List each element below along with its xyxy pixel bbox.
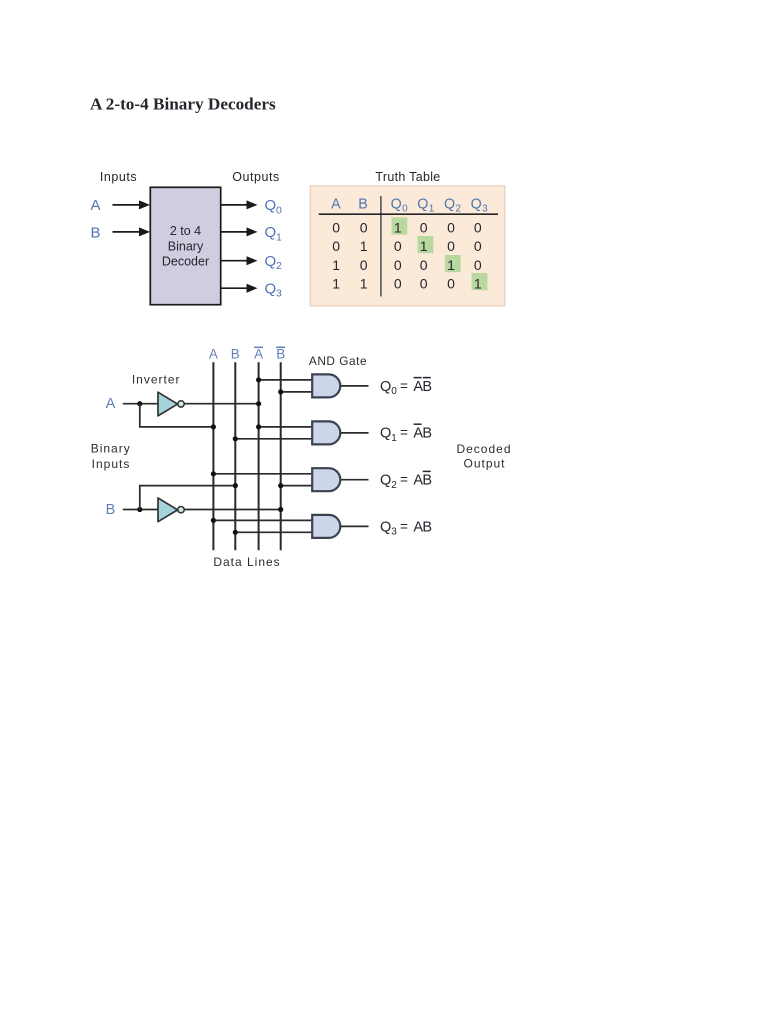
svg-text:=: = <box>400 472 408 487</box>
svg-text:0: 0 <box>360 220 368 236</box>
svg-text:A: A <box>254 347 263 362</box>
wire: data line B vertical <box>234 362 236 550</box>
svg-text:0: 0 <box>474 238 482 254</box>
node junction G4 in1 <box>211 518 216 523</box>
svg-text:=: = <box>400 378 408 393</box>
svg-text:1: 1 <box>360 238 368 254</box>
svg-text:Inverter: Inverter <box>132 373 181 387</box>
svg-text:2: 2 <box>456 204 462 215</box>
decoder block U1: 2 to 4 Binary Decoder <box>150 187 220 304</box>
label Binary Inputs <box>91 441 131 471</box>
table header Q2 <box>444 197 462 215</box>
svg-text:3: 3 <box>482 204 488 215</box>
table divider vertical <box>380 196 382 297</box>
svg-text:A: A <box>90 197 100 214</box>
svg-text:0: 0 <box>276 204 282 216</box>
table row 3: 1 0 0 0 1 0 <box>332 257 482 273</box>
wire: arrow output Q3 <box>221 284 258 293</box>
wire: data line Bbar vertical <box>280 362 282 550</box>
svg-text:0: 0 <box>447 275 455 291</box>
AND gate G4 <box>312 515 340 538</box>
svg-text:0: 0 <box>391 386 397 397</box>
svg-text:Decoder: Decoder <box>162 255 209 269</box>
svg-text:=: = <box>400 425 408 440</box>
svg-text:3: 3 <box>276 288 282 300</box>
svg-text:2: 2 <box>391 480 397 491</box>
label Q3 = AB <box>380 519 432 538</box>
svg-text:2 to 4: 2 to 4 <box>170 224 201 238</box>
table row 1: 0 0 1 0 0 0 <box>332 220 482 236</box>
svg-text:Q: Q <box>265 224 277 241</box>
svg-text:0: 0 <box>420 275 428 291</box>
node junction G1 in1 <box>256 377 261 382</box>
wire: Abar to gate G2 input 1 <box>259 426 313 428</box>
inverter U1 (input A) <box>158 392 184 416</box>
node junction G3 in1 <box>211 471 216 476</box>
svg-text:0: 0 <box>394 238 402 254</box>
svg-text:0: 0 <box>394 275 402 291</box>
svg-text:Data Lines: Data Lines <box>213 555 280 569</box>
svg-text:1: 1 <box>420 238 428 254</box>
wire: B to gate G2 input 2 <box>235 438 312 440</box>
wire: G3 output <box>341 479 369 481</box>
svg-text:Inputs: Inputs <box>100 170 137 184</box>
wire: inverter U2 output to Bbar line <box>184 509 281 511</box>
svg-text:0: 0 <box>474 257 482 273</box>
wire: Bbar to gate G3 input 2 <box>281 485 313 487</box>
svg-text:Binary: Binary <box>168 239 204 253</box>
svg-text:0: 0 <box>360 257 368 273</box>
node junction A line <box>211 424 216 429</box>
svg-text:Inputs: Inputs <box>92 457 131 471</box>
svg-text:Q: Q <box>380 519 391 535</box>
node label Bbar (data line) <box>276 347 285 362</box>
svg-text:B: B <box>106 502 116 518</box>
table row 4: 1 1 0 0 0 1 <box>332 275 482 291</box>
node junction on A input <box>137 401 142 406</box>
svg-text:3: 3 <box>391 527 397 538</box>
truth table panel <box>310 186 505 306</box>
svg-text:0: 0 <box>332 220 340 236</box>
table header Q1 <box>417 197 435 215</box>
svg-text:1: 1 <box>360 275 368 291</box>
table row 2: 0 1 0 1 0 0 <box>332 238 482 254</box>
node junction Abar drive <box>256 401 261 406</box>
wire: B input to inverter U2 <box>123 509 158 511</box>
wire: arrow output Q2 <box>221 256 258 265</box>
svg-text:B: B <box>276 347 285 362</box>
wire: B to gate G4 input 2 <box>235 531 312 533</box>
svg-text:0: 0 <box>394 257 402 273</box>
wire: A input to inverter U1 <box>123 403 158 405</box>
svg-text:A: A <box>209 347 218 362</box>
svg-text:A 2-to-4 Binary Decoders: A 2-to-4 Binary Decoders <box>90 95 276 114</box>
svg-text:Q: Q <box>380 473 391 489</box>
wire: arrow output Q1 <box>221 227 258 236</box>
node junction G3 in2 <box>278 483 283 488</box>
table header Q0 <box>391 197 409 215</box>
node junction Bbar drive <box>278 507 283 512</box>
label Q0 (block diagram output) <box>265 197 283 216</box>
svg-text:Q: Q <box>265 197 277 214</box>
highlight cell row4 Q3 <box>472 273 488 290</box>
svg-text:0: 0 <box>447 220 455 236</box>
svg-text:2: 2 <box>276 260 282 272</box>
svg-text:1: 1 <box>394 220 402 236</box>
svg-text:Outputs: Outputs <box>232 170 280 184</box>
svg-text:B: B <box>231 347 240 362</box>
highlight cell row1 Q0 <box>392 217 408 234</box>
svg-text:1: 1 <box>429 204 435 215</box>
table header rule <box>319 213 498 215</box>
svg-text:Q: Q <box>380 379 391 395</box>
table header Q3 <box>471 197 489 215</box>
svg-text:B: B <box>358 197 368 213</box>
svg-text:A: A <box>331 197 341 213</box>
node junction on B input <box>137 507 142 512</box>
AND gate G2 <box>312 421 340 444</box>
svg-text:1: 1 <box>447 257 455 273</box>
wire: G2 output <box>341 432 369 434</box>
svg-text:=: = <box>400 519 408 534</box>
svg-text:Q: Q <box>391 197 402 213</box>
svg-text:Q: Q <box>444 197 455 213</box>
highlight cell row2 Q1 <box>418 236 434 253</box>
svg-text:Q: Q <box>265 253 277 270</box>
AND gate G1 <box>312 374 340 397</box>
svg-text:0: 0 <box>402 204 408 215</box>
svg-text:Q: Q <box>380 426 391 442</box>
label Q3 (block diagram output) <box>265 281 283 300</box>
svg-text:Binary: Binary <box>91 441 131 455</box>
label Q2 (block diagram output) <box>265 253 283 272</box>
svg-text:B: B <box>422 519 432 535</box>
svg-text:A: A <box>106 396 116 412</box>
label Decoded Output <box>456 442 511 471</box>
svg-text:Output: Output <box>463 457 505 471</box>
wire: Abar to gate G1 input 1 <box>259 379 313 381</box>
wire: data line Abar vertical <box>258 362 260 550</box>
wire: data line A vertical <box>212 362 214 550</box>
node junction B line <box>233 483 238 488</box>
svg-text:1: 1 <box>332 257 340 273</box>
label Q0 = AbarBbar <box>380 378 432 398</box>
svg-text:1: 1 <box>332 275 340 291</box>
wire: A input down to A line <box>140 404 214 427</box>
wire: G4 output <box>341 525 369 527</box>
wire: arrow input B <box>113 227 151 236</box>
svg-text:0: 0 <box>332 238 340 254</box>
node junction G2 in2 <box>233 436 238 441</box>
node junction G4 in2 <box>233 530 238 535</box>
svg-text:Q: Q <box>265 281 277 298</box>
svg-text:1: 1 <box>474 275 482 291</box>
node junction G1 in2 <box>278 389 283 394</box>
label Q1 (block diagram output) <box>265 224 283 243</box>
svg-text:0: 0 <box>474 220 482 236</box>
highlight cell row3 Q2 <box>445 255 461 272</box>
AND gate G3 <box>312 468 340 491</box>
wire: A to gate G3 input 1 <box>213 473 312 475</box>
wire: B input up to B line <box>140 486 236 510</box>
svg-text:Q: Q <box>417 197 428 213</box>
svg-text:1: 1 <box>276 231 282 243</box>
node label Abar (data line) <box>254 347 263 362</box>
label Q1 = AbarB <box>380 424 432 444</box>
wire: arrow output Q0 <box>221 200 258 209</box>
svg-text:Q: Q <box>471 197 482 213</box>
svg-text:0: 0 <box>420 220 428 236</box>
node junction G2 in1 <box>256 424 261 429</box>
label Q2 = ABbar <box>380 471 432 491</box>
wire: Bbar to gate G1 input 2 <box>281 391 313 393</box>
inverter U2 (input B) <box>158 498 184 522</box>
svg-text:0: 0 <box>447 238 455 254</box>
wire: arrow input A <box>113 200 151 209</box>
svg-text:B: B <box>422 426 432 442</box>
svg-text:AND Gate: AND Gate <box>309 354 367 368</box>
svg-text:B: B <box>90 225 100 242</box>
svg-text:1: 1 <box>391 433 397 444</box>
wire: inverter U1 output to Abar line <box>184 403 258 405</box>
svg-text:B: B <box>422 473 432 489</box>
svg-text:0: 0 <box>420 257 428 273</box>
wire: G1 output <box>341 385 369 387</box>
svg-text:B: B <box>422 379 432 395</box>
svg-text:Decoded: Decoded <box>456 442 511 456</box>
wire: A to gate G4 input 1 <box>213 519 312 521</box>
svg-text:Truth Table: Truth Table <box>375 170 440 184</box>
